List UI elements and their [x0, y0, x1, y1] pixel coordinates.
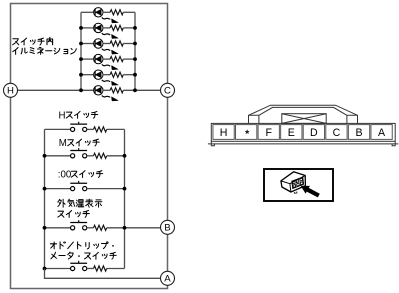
svg-text::00: :00 — [58, 170, 72, 181]
terminal cell E — [281, 125, 302, 140]
wire row 1 left segment — [81, 11, 93, 13]
momentary switch (outside-temp-switch) — [71, 226, 75, 230]
connector housing top outline — [249, 105, 358, 123]
svg-text:D: D — [310, 127, 318, 139]
wire row 2 left segment — [81, 27, 93, 29]
wire row 4 left segment — [81, 58, 93, 60]
wire odo-trip-switch row mid segment — [87, 268, 94, 270]
label: switch illumination line 2 (irumineeshon) — [13, 48, 18, 55]
svg-text:E: E — [288, 127, 295, 139]
LED 2 (switch illumination) — [94, 23, 103, 32]
connector icon (3D view) — [281, 172, 306, 192]
connector flange line — [208, 143, 399, 145]
wire outside-temp-switch row right segment — [107, 227, 125, 229]
resistor row 4 — [110, 57, 123, 62]
wire outside-temp-switch row mid segment — [87, 227, 94, 229]
wire H-switch row mid segment — [87, 128, 94, 130]
junction dot left rail odo row — [43, 267, 47, 271]
wire row 6 right segment to terminal C — [123, 89, 160, 91]
junction dot right rail row 2 — [133, 26, 137, 30]
wire row 5 left segment — [81, 74, 93, 76]
illumination LED ladder right rail wire — [134, 12, 136, 90]
label: odo/trip line 2 — [51, 252, 57, 259]
wire M-switch row left segment — [45, 155, 71, 157]
wire row 6 middle segment — [103, 89, 110, 91]
resistor M-switch row — [94, 153, 107, 158]
svg-text:H: H — [7, 86, 14, 97]
svg-text:F: F — [265, 127, 272, 139]
wire row 3 left segment — [81, 43, 93, 45]
svg-text:H: H — [59, 110, 66, 121]
momentary switch (H-switch) — [71, 127, 75, 131]
illumination LED ladder left rail wire — [80, 12, 82, 90]
LED 1 (switch illumination) — [94, 8, 103, 17]
junction dot left rail row 5 — [79, 73, 83, 77]
connector housing inner roof line — [259, 107, 347, 115]
svg-text:B: B — [164, 223, 170, 234]
junction dot right rail outside-temp row — [123, 226, 127, 230]
wire outside-temp-switch row left segment — [45, 227, 71, 229]
junction dot right rail row 5 — [133, 73, 137, 77]
svg-text:B: B — [355, 127, 362, 139]
terminal C — [161, 83, 175, 97]
label: odo/trip line 1 — [50, 242, 56, 249]
junction dot right rail row 6 — [133, 88, 137, 92]
resistor H-switch row — [94, 127, 107, 132]
terminal cell D — [303, 125, 324, 140]
junction dot right rail M row — [123, 154, 127, 158]
terminal A — [161, 271, 175, 285]
resistor outside-temp-switch row — [94, 225, 107, 230]
wire odo-trip-switch row right segment — [107, 268, 125, 270]
resistor row 6 — [110, 88, 123, 93]
resistor row 2 — [110, 25, 123, 30]
svg-text:A: A — [164, 274, 171, 285]
pin label * — [245, 129, 250, 134]
resistor row 1 — [110, 10, 123, 15]
switch ladder left rail wire — [44, 129, 46, 268]
resistor row 5 — [110, 72, 123, 77]
svg-text:C: C — [333, 127, 341, 139]
junction dot left rail M row — [43, 154, 47, 158]
svg-text:C: C — [164, 86, 171, 97]
label: switch illumination line 1 (suicchi-nai) — [13, 39, 19, 45]
wire row 1 right segment — [123, 11, 135, 13]
wire odo-trip-switch row left segment — [45, 268, 71, 270]
momentary switch (:00-switch) — [71, 187, 75, 191]
resistor odo-trip-switch row — [94, 266, 107, 271]
momentary switch (odo-trip-switch) — [71, 266, 75, 270]
wire row 4 right segment — [123, 58, 135, 60]
pointer arrow — [301, 186, 320, 198]
wire row 2 middle segment — [103, 27, 110, 29]
connector housing step tops — [249, 114, 358, 116]
wire row 3 right segment — [123, 43, 135, 45]
connector housing step inner walls — [259, 115, 347, 123]
wire row 2 right segment — [123, 27, 135, 29]
junction dot left rail row 3 — [79, 42, 83, 46]
terminal cell * — [236, 125, 257, 140]
terminal cell C — [326, 125, 347, 140]
wire row 5 middle segment — [103, 74, 110, 76]
junction dot right rail :00 row — [123, 187, 127, 191]
switch ladder right rail wire — [124, 129, 126, 268]
wire H-switch row right segment — [107, 128, 125, 130]
junction dot left rail row 4 — [79, 57, 83, 61]
LED 6 (switch illumination) — [94, 86, 103, 95]
momentary switch (M-switch) — [71, 154, 75, 158]
connector flange right foot — [392, 141, 395, 146]
connector terminal row outer box — [211, 123, 395, 141]
junction dot right rail row 3 — [133, 42, 137, 46]
wire :00-switch row right segment — [87, 188, 125, 190]
wire from terminal H to terminal C through row 6 — [18, 89, 94, 91]
wire :00-switch row left segment — [45, 188, 71, 190]
wire from odo row down to terminal A — [45, 269, 161, 279]
junction dot left rail :00 row — [43, 187, 47, 191]
junction dot left rail row 2 — [79, 26, 83, 30]
terminal cell A — [371, 125, 392, 140]
wire row 3 middle segment — [103, 43, 110, 45]
terminal cell H — [213, 125, 234, 140]
wire row 1 middle segment — [103, 11, 110, 13]
terminal cell F — [258, 125, 279, 140]
wire from ladder to terminal B — [125, 227, 161, 229]
terminal cell B — [348, 125, 369, 140]
junction dot left rail row 6 — [79, 88, 83, 92]
connector flange left foot — [211, 141, 214, 146]
wire M-switch row right segment — [107, 155, 125, 157]
wire H-switch row left segment — [45, 128, 71, 130]
LED 3 (switch illumination) — [94, 39, 103, 48]
terminal B — [161, 220, 175, 234]
wire row 5 right segment — [123, 74, 135, 76]
wire row 4 middle segment — [103, 58, 110, 60]
connector latch (X box) — [282, 114, 326, 124]
wire M-switch row mid segment — [87, 155, 94, 157]
terminal H — [4, 83, 18, 97]
svg-text:A: A — [378, 127, 386, 139]
meter assembly outline box — [11, 4, 168, 289]
label: outside temp display line 1 — [58, 199, 65, 207]
resistor row 3 — [110, 41, 123, 46]
svg-text:H: H — [220, 127, 228, 139]
label: outside temp display line 2 — [58, 211, 64, 217]
LED 5 (switch illumination) — [94, 70, 103, 79]
LED 4 (switch illumination) — [94, 54, 103, 63]
svg-text:M: M — [59, 138, 67, 149]
detail view box — [264, 169, 333, 201]
junction dot right rail row 4 — [133, 57, 137, 61]
junction dot left rail outside-temp row — [43, 226, 47, 230]
